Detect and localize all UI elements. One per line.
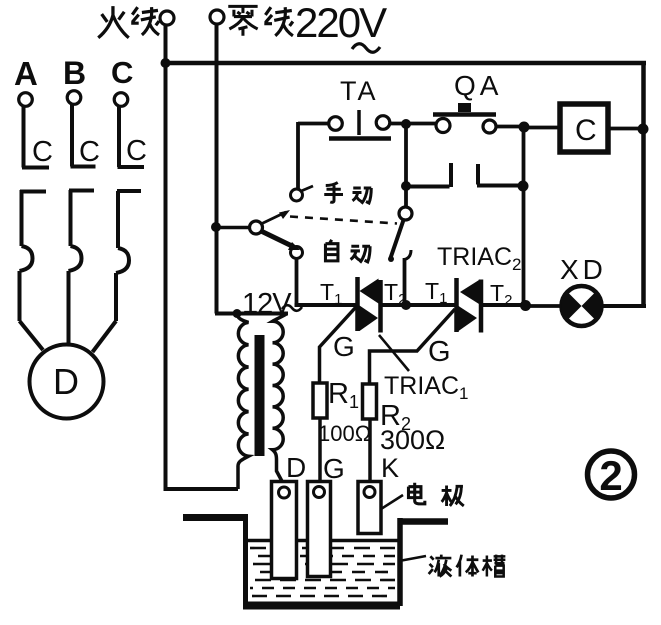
- svg-text:C: C: [575, 114, 597, 147]
- wire neutral drop: [215, 24, 288, 314]
- selector common pole: [250, 221, 263, 234]
- triac TRIAC1: [358, 277, 381, 333]
- terminal 火线: [160, 11, 174, 25]
- wire to transformer primary bottom: [164, 487, 239, 491]
- pushbutton QA: [433, 112, 496, 117]
- thermal element phase A: [20, 190, 47, 321]
- leader 液体槽: [399, 556, 426, 561]
- tank right rim: [398, 518, 448, 525]
- transformer core: [255, 335, 265, 456]
- node aux left: [401, 181, 411, 191]
- wire x406 vertical: [404, 124, 408, 208]
- terminal 零线: [210, 10, 224, 24]
- terminal phase A: [19, 93, 33, 107]
- dashed mechanical link: [290, 217, 397, 224]
- wire lamp right: [600, 304, 646, 308]
- resistor R2: [363, 384, 377, 419]
- selector blade arrow up: [262, 212, 286, 224]
- wire live drop: [164, 25, 168, 489]
- wire QA right: [496, 125, 521, 129]
- wire coil to right rail: [609, 127, 641, 131]
- liquid surface: [248, 539, 398, 543]
- svg-text:QA: QA: [454, 70, 502, 101]
- svg-text:K: K: [381, 453, 399, 483]
- electrode K: [358, 482, 381, 534]
- triac TRIAC2: [457, 278, 482, 333]
- terminal phase C: [114, 93, 128, 107]
- wire TA left to manual contact: [298, 122, 329, 190]
- tilde under V: [352, 44, 380, 53]
- wire auto contact down: [295, 258, 299, 304]
- selector pole 2: [399, 207, 412, 220]
- svg-text:TRIAC1: TRIAC1: [384, 372, 468, 403]
- tank right wall: [397, 518, 403, 606]
- leader 电极: [381, 495, 403, 509]
- label 液体槽: [429, 555, 452, 577]
- svg-text:G: G: [333, 331, 355, 362]
- wire pole2 down: [403, 258, 407, 305]
- node QA right: [519, 122, 530, 133]
- svg-text:R1: R1: [328, 378, 359, 412]
- wire top rail: [164, 61, 646, 66]
- gate wire triac2: [370, 309, 456, 384]
- wire x523 vertical: [522, 127, 526, 306]
- transformer secondary winding: [273, 314, 288, 485]
- node live / top rail junction: [161, 58, 171, 68]
- wire to coil C: [528, 126, 559, 130]
- wire triac row: [295, 303, 358, 307]
- svg-text:C: C: [126, 135, 147, 167]
- tank bottom: [243, 602, 400, 610]
- contact C phase C: [118, 106, 145, 167]
- svg-text:T2: T2: [490, 280, 512, 309]
- label 火线 (live wire): [98, 6, 129, 38]
- node triac row right: [520, 300, 531, 311]
- node aux right: [518, 181, 529, 192]
- wire R1 to electrode G: [318, 418, 322, 482]
- gate wire triac1: [320, 307, 357, 383]
- wire lead C to motor: [93, 321, 117, 352]
- label 零线 (neutral wire): [228, 6, 257, 35]
- liquid hatching: [250, 548, 395, 596]
- wire lamp left: [528, 304, 563, 308]
- thermal element phase C: [116, 191, 141, 321]
- transformer primary winding: [237, 314, 249, 490]
- label 手动: [324, 183, 343, 203]
- svg-text:G: G: [323, 453, 345, 484]
- contact 自动: [291, 247, 303, 259]
- terminal phase B: [67, 91, 81, 105]
- svg-text:C: C: [79, 136, 100, 168]
- svg-text:300Ω: 300Ω: [380, 425, 445, 455]
- node right rail: [638, 124, 649, 135]
- selector blade to auto: [261, 231, 293, 247]
- wire right side vertical: [641, 61, 646, 306]
- svg-text:TA: TA: [340, 76, 379, 106]
- svg-text:A: A: [14, 55, 38, 92]
- electrode G: [308, 482, 331, 577]
- node triac row center: [401, 300, 411, 310]
- svg-text:T1: T1: [320, 279, 342, 308]
- svg-text:B: B: [63, 55, 86, 91]
- contact C phase B: [71, 105, 96, 167]
- node neutral / selector: [211, 222, 221, 232]
- label 自动: [325, 240, 337, 261]
- aux contact C (NO): [406, 163, 451, 187]
- switch TA: [329, 117, 343, 131]
- resistor R1: [313, 383, 327, 418]
- leader line TRIAC1 label: [379, 335, 409, 371]
- wire to selector common: [216, 226, 250, 230]
- wire TA right: [390, 122, 437, 126]
- thermal element phase B: [69, 190, 95, 344]
- wire lead A to motor: [20, 321, 44, 350]
- svg-text:TRIAC2: TRIAC2: [437, 243, 521, 274]
- motor D: [30, 345, 104, 419]
- svg-text:XD: XD: [560, 254, 607, 285]
- coil C box: [560, 104, 608, 152]
- svg-text:220V: 220V: [295, 0, 387, 46]
- electrode D: [272, 482, 297, 579]
- label 电极: [408, 483, 424, 504]
- node transformer top: [233, 309, 242, 318]
- svg-text:100Ω: 100Ω: [318, 421, 371, 446]
- svg-text:D: D: [53, 361, 79, 402]
- wire R2 to electrode K: [368, 419, 372, 482]
- svg-text:G: G: [428, 336, 451, 368]
- svg-text:T1: T1: [425, 278, 447, 307]
- figure number 2: [588, 451, 635, 499]
- tank left wall: [243, 515, 248, 606]
- svg-text:C: C: [32, 136, 53, 168]
- tank left rim: [183, 514, 248, 521]
- svg-text:D: D: [286, 452, 306, 483]
- contact C phase A: [22, 106, 49, 168]
- lamp XD: [562, 286, 602, 326]
- node TA-QA: [401, 119, 411, 129]
- svg-text:2: 2: [599, 452, 622, 499]
- contact 手动: [291, 189, 303, 201]
- svg-text:C: C: [111, 55, 133, 90]
